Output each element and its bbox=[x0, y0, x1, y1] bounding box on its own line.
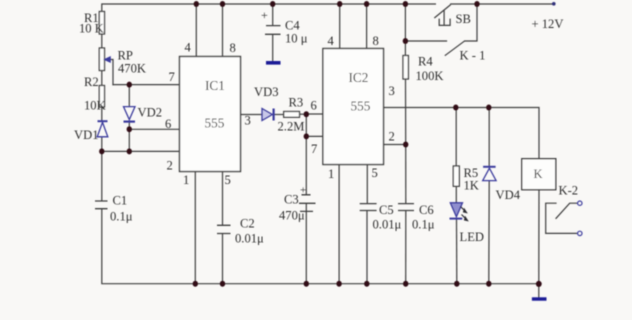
svg-text:2: 2 bbox=[389, 130, 395, 144]
junction top bus at C4 bbox=[270, 1, 275, 7]
svg-text:R3: R3 bbox=[289, 96, 304, 110]
wire relay K to ground bus bbox=[538, 190, 540, 284]
wire R2 to VD1 bbox=[101, 107, 103, 121]
junction pin3 line at R5 bbox=[453, 105, 458, 111]
relay contact K-1 bbox=[445, 41, 465, 56]
wire C4 bottom lead bbox=[272, 35, 274, 61]
junction ground bus at IC2 pin1 bbox=[336, 281, 341, 287]
relay coil K box bbox=[522, 159, 556, 190]
wire K-1 left lead bbox=[405, 40, 446, 42]
junction RP wiper pin7 line bbox=[127, 82, 132, 88]
resistor R3 bbox=[284, 112, 300, 118]
svg-text:100K: 100K bbox=[416, 69, 444, 83]
diode VD3 bbox=[262, 109, 272, 121]
svg-text:K-2: K-2 bbox=[559, 184, 579, 198]
svg-text:C6: C6 bbox=[419, 203, 434, 217]
svg-text:C4: C4 bbox=[285, 19, 300, 33]
junction top bus at IC1 pin8 bbox=[220, 1, 225, 7]
svg-text:5: 5 bbox=[372, 166, 378, 180]
wire pin7 stub IC2 bbox=[306, 135, 323, 137]
wire VD3 to R3 bbox=[274, 114, 283, 116]
wire VD1 to node pin2 line bbox=[101, 137, 103, 151]
ground symbol blue bar bbox=[532, 297, 547, 300]
svg-text:0.01μ: 0.01μ bbox=[373, 218, 402, 232]
wire C2 to ground bus bbox=[222, 234, 224, 284]
svg-text:6: 6 bbox=[311, 99, 317, 113]
wire pin2 line IC1 bbox=[102, 150, 180, 152]
wire C4 top lead bbox=[272, 4, 274, 25]
svg-text:4: 4 bbox=[328, 34, 335, 48]
diode VD1 bbox=[98, 120, 108, 122]
capacitor C4 negative plate blue bar bbox=[266, 61, 281, 65]
svg-text:+ 12V: + 12V bbox=[532, 17, 564, 31]
svg-text:K - 1: K - 1 bbox=[460, 49, 486, 63]
svg-text:5: 5 bbox=[225, 173, 231, 187]
wire VD2 node down to pin2 line bbox=[128, 129, 130, 151]
wire IC1 pin3 to VD3 bbox=[241, 114, 263, 116]
svg-text:1K: 1K bbox=[464, 179, 479, 193]
svg-text:IC2: IC2 bbox=[349, 70, 369, 85]
svg-text:7: 7 bbox=[311, 142, 317, 156]
junction ground bus at C5 bbox=[364, 281, 369, 287]
potentiometer RP body bbox=[99, 48, 104, 71]
pushbutton SB bbox=[434, 5, 450, 26]
svg-text:VD4: VD4 bbox=[496, 188, 521, 202]
svg-text:470μ: 470μ bbox=[279, 209, 305, 223]
junction top bus at R4 column bbox=[403, 1, 408, 7]
svg-text:0.01μ: 0.01μ bbox=[235, 232, 264, 246]
wire C5 to ground bus bbox=[366, 211, 368, 283]
svg-text:C2: C2 bbox=[240, 217, 255, 231]
diode VD4 bbox=[483, 166, 496, 168]
wire VD4 top lead bbox=[488, 108, 490, 167]
junction VD1 pin2 line bbox=[99, 148, 104, 154]
LED emission arrows bbox=[461, 207, 468, 221]
capacitor C2 bbox=[217, 225, 231, 233]
capacitor C5 bbox=[360, 204, 377, 211]
svg-text:1: 1 bbox=[328, 167, 334, 181]
junction ground bus at C6 bbox=[403, 281, 408, 287]
junction R4 K-1 node bbox=[403, 38, 408, 44]
svg-text:8: 8 bbox=[373, 34, 379, 48]
wire R3 to node bbox=[300, 113, 307, 115]
op-amp IC1 555 timer box bbox=[180, 57, 241, 172]
wire K-1 right lead to top bus bbox=[465, 4, 477, 41]
junction ground bus at VD4 bbox=[486, 281, 491, 287]
capacitor C6 bbox=[398, 204, 414, 211]
junction ground bus at LED bbox=[454, 281, 459, 287]
svg-text:0.1μ: 0.1μ bbox=[412, 218, 435, 232]
wire bottom ground bus bbox=[102, 210, 539, 284]
junction VD2 column pin2 line bbox=[127, 148, 132, 154]
wire pin2 stub IC2 bbox=[384, 144, 406, 146]
svg-text:R4: R4 bbox=[418, 55, 433, 69]
svg-text:SB: SB bbox=[456, 12, 471, 26]
svg-text:10 K: 10 K bbox=[79, 22, 104, 36]
svg-text:8: 8 bbox=[230, 41, 236, 55]
svg-text:IC1: IC1 bbox=[205, 78, 225, 93]
svg-text:470K: 470K bbox=[118, 62, 146, 76]
wire IC2 pin4 to top bus bbox=[339, 4, 341, 49]
svg-text:VD3: VD3 bbox=[254, 85, 279, 99]
capacitor C4 bbox=[265, 26, 281, 35]
wire VD2 top lead bbox=[128, 85, 130, 107]
wire IC1 pin5 to C2 bbox=[222, 172, 224, 226]
junction top bus at IC2 pin8 bbox=[364, 1, 369, 7]
wire IC2 pin8 to top bus bbox=[366, 4, 368, 49]
svg-text:4: 4 bbox=[185, 41, 192, 55]
LED indicator diode bbox=[450, 203, 462, 217]
wire R4 to pin2 node bbox=[405, 79, 407, 145]
wire VD4 to ground bus bbox=[488, 181, 490, 284]
svg-text:555: 555 bbox=[351, 99, 371, 114]
svg-text:+: + bbox=[261, 8, 268, 22]
junction ground bus at C2 bbox=[220, 281, 225, 287]
wire RP to R2 bbox=[101, 71, 103, 86]
wire VD2 bottom lead to pin6 node bbox=[128, 123, 130, 130]
svg-text:7: 7 bbox=[169, 70, 175, 84]
wire C6 to ground bus bbox=[405, 211, 407, 283]
capacitor C3 electrolytic bbox=[299, 195, 316, 212]
svg-text:K: K bbox=[534, 167, 543, 181]
wire node to C1 bbox=[101, 151, 103, 200]
wire LED to ground bus bbox=[456, 219, 458, 283]
svg-text:10K: 10K bbox=[84, 99, 106, 113]
wire pin6 line IC1 bbox=[129, 128, 179, 130]
svg-text:C3: C3 bbox=[284, 193, 299, 207]
capacitor C1 bbox=[95, 201, 108, 209]
junction top bus at IC2 pin4 bbox=[337, 1, 342, 7]
junction pin2 R4 column node bbox=[403, 142, 408, 148]
junction pin7 node bbox=[304, 133, 309, 139]
svg-text:RP: RP bbox=[118, 49, 133, 63]
potentiometer RP wiper arrow bbox=[105, 57, 111, 62]
wire left column R1 to RP bbox=[101, 34, 103, 48]
wire top bus left segment bbox=[102, 4, 436, 12]
svg-text:VD2: VD2 bbox=[138, 106, 163, 120]
svg-text:R2: R2 bbox=[84, 75, 99, 89]
resistor R4 bbox=[403, 56, 408, 80]
wire R5 to LED bbox=[455, 186, 457, 203]
wire pin2 node down to C6 bbox=[405, 145, 407, 204]
svg-text:VD1: VD1 bbox=[74, 128, 99, 142]
op-amp IC2 555 timer box bbox=[323, 49, 384, 165]
junction ground bus at relay K bbox=[536, 281, 542, 287]
svg-text:10 μ: 10 μ bbox=[285, 32, 308, 46]
resistor R1 bbox=[99, 12, 104, 35]
wire pin6 stub IC2 bbox=[306, 113, 323, 115]
svg-text:3: 3 bbox=[389, 84, 395, 98]
wire IC1 pin4 to top bus bbox=[195, 4, 197, 57]
junction top bus at K-1 column bbox=[474, 1, 479, 7]
wire pin7 line IC1 bbox=[113, 84, 180, 86]
wire top bus right segment to +12V bbox=[451, 3, 554, 5]
wire RP wiper to pin7 line bbox=[111, 60, 114, 85]
junction pin3 line at VD4 bbox=[486, 105, 491, 111]
wire C3 to ground bus bbox=[305, 204, 307, 284]
diode VD2 bbox=[124, 107, 136, 120]
wire IC1 pin8 to top bus bbox=[222, 4, 224, 57]
resistor R2 bbox=[99, 86, 104, 108]
svg-text:1: 1 bbox=[183, 173, 189, 187]
svg-text:3: 3 bbox=[245, 114, 251, 128]
svg-text:2: 2 bbox=[167, 159, 173, 173]
junction top bus at IC1 pin4 bbox=[194, 1, 199, 7]
svg-text:0.1μ: 0.1μ bbox=[110, 210, 133, 224]
wire pin7 node down to C3 bbox=[305, 136, 307, 194]
svg-text:2.2M: 2.2M bbox=[278, 120, 305, 134]
wire R4 node to R4 bbox=[404, 4, 406, 56]
wire R5 top lead bbox=[455, 108, 457, 167]
resistor R5 bbox=[453, 166, 459, 186]
wire IC2 pin1 to ground bus bbox=[338, 165, 340, 284]
svg-text:6: 6 bbox=[165, 117, 171, 131]
wire node down to pin7 node bbox=[305, 114, 307, 136]
svg-text:LED: LED bbox=[460, 230, 484, 244]
svg-text:C5: C5 bbox=[379, 203, 394, 217]
wire IC1 pin1 to ground bus bbox=[194, 172, 196, 284]
svg-text:555: 555 bbox=[205, 116, 225, 131]
junction VD2 cathode pin6 line bbox=[127, 126, 132, 132]
svg-text:+: + bbox=[300, 185, 306, 197]
junction end of +12V lead bbox=[552, 2, 556, 6]
svg-text:C1: C1 bbox=[113, 194, 128, 208]
junction R3 pin6 node bbox=[304, 111, 309, 117]
junction ground bus at IC1 pin1 bbox=[193, 281, 198, 287]
relay contact K-2 bbox=[546, 201, 582, 236]
wire ground stem bbox=[538, 284, 540, 298]
wire IC2 pin3 output line bbox=[384, 108, 540, 159]
junction ground bus at C3 bbox=[304, 281, 309, 287]
wire IC2 pin5 to C5 bbox=[366, 165, 368, 204]
